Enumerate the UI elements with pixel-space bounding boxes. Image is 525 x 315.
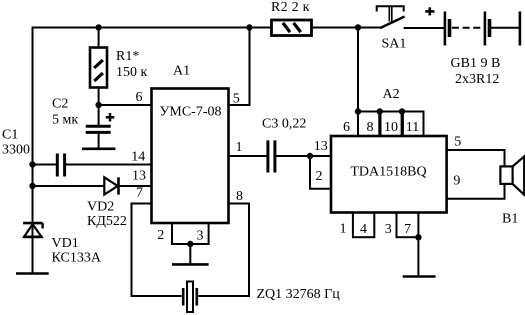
wire A2 top bus (358, 111, 424, 113)
svg-text:11: 11 (406, 120, 419, 135)
node junction R1 bottom / C2 / pin6 (95, 102, 101, 108)
svg-text:5: 5 (233, 92, 240, 107)
svg-text:8: 8 (236, 189, 243, 204)
capacitor C1 (33, 154, 65, 177)
speaker B1 (500, 156, 524, 194)
svg-text:3: 3 (197, 229, 204, 244)
svg-text:C1: C1 (2, 128, 18, 143)
svg-text:C2: C2 (52, 97, 68, 112)
svg-text:13: 13 (132, 169, 146, 184)
svg-text:R2 2 к: R2 2 к (271, 0, 310, 15)
svg-text:2: 2 (316, 169, 323, 184)
pin 7 box of A2 (pins 3,7) (397, 213, 419, 238)
op-amp U1: IC A1 УМС-7-08 box (152, 89, 229, 224)
node junction pin 7 ground (415, 234, 421, 240)
svg-text:A1: A1 (173, 64, 190, 79)
svg-text:A2: A2 (383, 87, 400, 102)
ground C2 (82, 148, 116, 151)
node junction bus start (355, 108, 361, 114)
wire left rail vertical (32, 27, 34, 274)
svg-text:1: 1 (340, 222, 347, 237)
node junction bus pin8/10 (377, 108, 383, 114)
svg-text:150 к: 150 к (116, 65, 148, 80)
svg-text:SA1: SA1 (382, 37, 407, 52)
svg-text:КС133А: КС133А (52, 251, 102, 266)
svg-text:УМС-7-08: УМС-7-08 (159, 105, 221, 120)
ground A1 (172, 263, 209, 266)
node junction pins 2,3 (187, 241, 193, 247)
wire pin 5 of A1 riser (229, 28, 250, 106)
svg-text:C3 0,22: C3 0,22 (262, 117, 306, 132)
wire pin 1 of A1 to C3 (229, 155, 268, 157)
svg-text:3300: 3300 (2, 143, 30, 158)
node junction C1 branch (29, 161, 35, 167)
svg-text:10: 10 (384, 120, 398, 135)
wire top rail left segment (33, 27, 272, 29)
zener VD1 (23, 223, 42, 237)
svg-text:1: 1 (236, 140, 243, 155)
svg-text:ZQ1 32768 Гц: ZQ1 32768 Гц (257, 287, 341, 302)
wire pin 5 of A2 to speaker (447, 150, 505, 167)
svg-text:GB1 9 В: GB1 9 В (451, 56, 501, 71)
ground VD1 (16, 272, 49, 275)
capacitor C3 (268, 140, 331, 172)
svg-text:7: 7 (404, 222, 411, 237)
svg-text:2: 2 (157, 228, 164, 243)
pin 10 box of A2 (381, 112, 402, 137)
pin 8 box of A2 (358, 112, 379, 137)
pin 4 box of A2 (pins 1,4) (353, 213, 374, 238)
wire pin 7 to ground (417, 237, 419, 276)
node junction VD2 branch (29, 183, 35, 189)
crystal ZQ1 (183, 282, 197, 313)
switch SA1 (377, 6, 444, 28)
wire pin 6 of A1 (99, 104, 152, 106)
svg-text:8: 8 (367, 120, 374, 135)
resistor R1 (90, 28, 107, 106)
svg-text:5 мк: 5 мк (52, 113, 78, 128)
diode VD2 (33, 177, 152, 194)
wire pins 2,3 of A1 notch (171, 223, 210, 264)
node junction bus pin10/11 (399, 108, 405, 114)
svg-text:VD1: VD1 (52, 236, 79, 251)
svg-text:6: 6 (343, 120, 350, 135)
wire pin 14 of A1 (66, 164, 152, 166)
svg-text:6: 6 (136, 90, 143, 105)
svg-text:TDA1518BQ: TDA1518BQ (350, 165, 426, 180)
capacitor C2 (86, 105, 115, 149)
svg-text:4: 4 (360, 222, 367, 237)
wire pin 9 of A2 to speaker (447, 184, 505, 199)
transistor U2: IC A2 TDA1518BQ box (331, 136, 447, 213)
svg-text:B1: B1 (502, 212, 518, 227)
node junction R1 top (95, 24, 101, 30)
node junction pin5 riser top (246, 24, 252, 30)
svg-text:13: 13 (314, 139, 328, 154)
resistor R2 (272, 20, 312, 36)
svg-text:КД522: КД522 (87, 214, 127, 229)
svg-text:7: 7 (136, 186, 143, 201)
svg-text:9: 9 (453, 173, 460, 188)
node junction SA1/A2 riser (355, 24, 361, 30)
wire pin 7 of A1 to crystal (132, 204, 182, 297)
svg-text:R1*: R1* (116, 49, 139, 64)
pin 11 box of A2 (403, 112, 424, 137)
svg-text:14: 14 (131, 150, 145, 165)
wire A2 riser pin 6 (357, 28, 359, 137)
svg-text:2x3R12: 2x3R12 (455, 72, 499, 87)
battery GB1 (425, 7, 520, 45)
wire R2 to SA1 (312, 27, 381, 29)
ground A2 (403, 275, 436, 278)
wire pin 8 of A1 to crystal (198, 204, 249, 297)
svg-text:3: 3 (385, 222, 392, 237)
wire pin 2 of A2 (310, 156, 331, 189)
svg-text:VD2: VD2 (87, 200, 114, 215)
node junction pin13/pin2 of A2 (307, 153, 313, 159)
svg-text:5: 5 (454, 135, 461, 150)
